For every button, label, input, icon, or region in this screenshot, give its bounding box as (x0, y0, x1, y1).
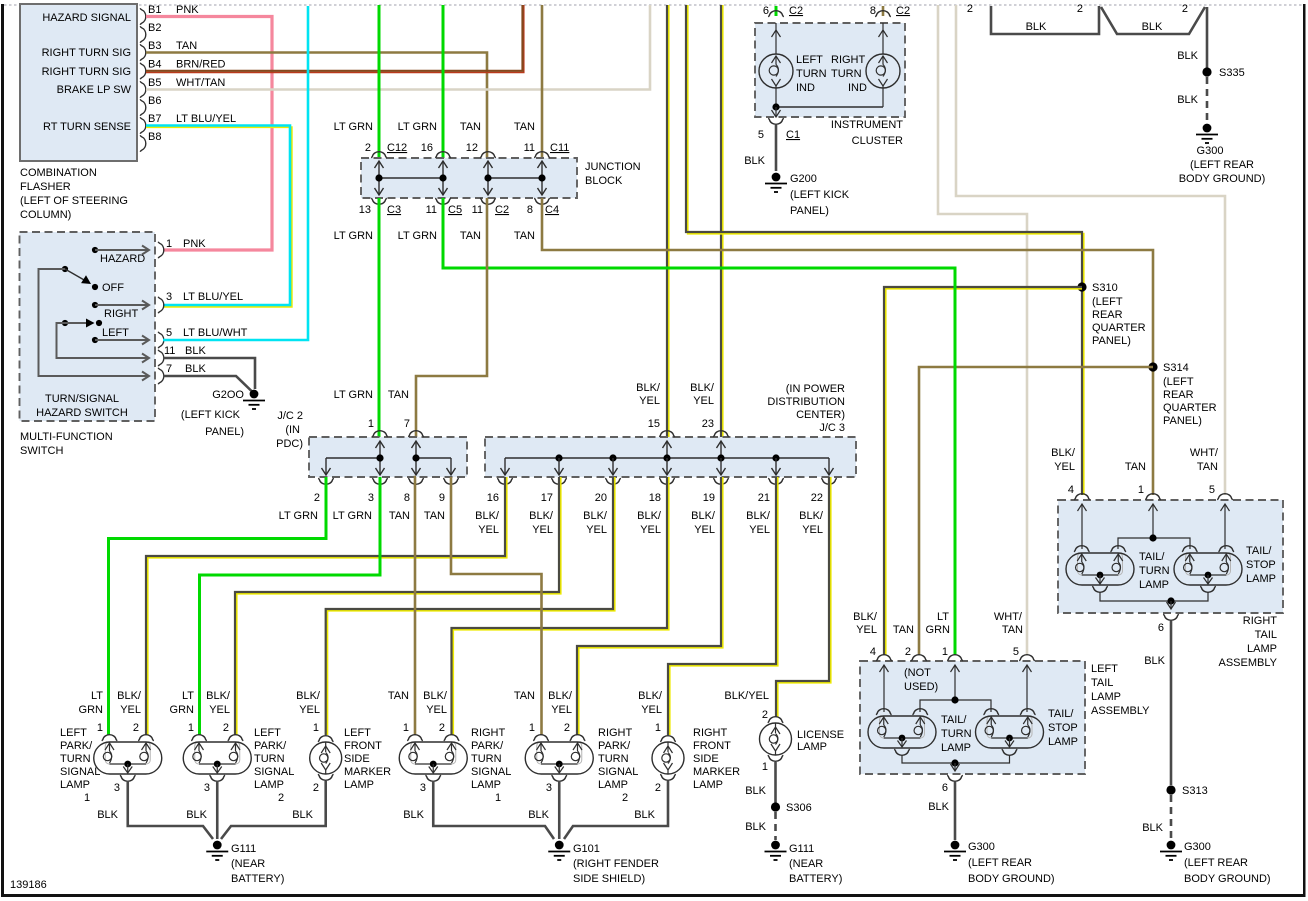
junction block pin C11/C4 arrow (538, 161, 547, 195)
svg-text:G2OO: G2OO (212, 389, 244, 401)
left front side marker lamp (310, 736, 342, 781)
svg-text:(LEFT OF STEERING: (LEFT OF STEERING (20, 195, 128, 207)
svg-text:LAMP: LAMP (1091, 691, 1121, 703)
svg-text:TURN: TURN (471, 753, 502, 765)
svg-text:9: 9 (439, 492, 445, 504)
J/C 3 pin caps (659, 431, 675, 437)
svg-text:3: 3 (368, 492, 374, 504)
switch arm lower (62, 320, 68, 326)
svg-text:2: 2 (967, 3, 973, 15)
J/C 3 pin 20 arrow (609, 458, 618, 475)
junction block bus right (488, 177, 542, 179)
svg-text:RIGHT TURN SIG: RIGHT TURN SIG (42, 47, 131, 59)
svg-text:18: 18 (649, 492, 661, 504)
svg-text:5: 5 (1013, 646, 1019, 658)
svg-text:TAN: TAN (893, 624, 914, 636)
svg-text:C3: C3 (387, 204, 401, 216)
svg-text:2: 2 (133, 722, 139, 734)
svg-text:C2: C2 (495, 204, 509, 216)
splice S306 (771, 802, 780, 811)
svg-text:REAR: REAR (1163, 389, 1194, 401)
svg-text:TURN: TURN (941, 728, 972, 740)
pin B5 bracket (140, 81, 146, 98)
wire TAN branch S314 to left tail pin 2 (919, 367, 1153, 655)
svg-text:1: 1 (495, 792, 501, 804)
svg-text:2: 2 (655, 782, 661, 794)
svg-text:OFF: OFF (102, 282, 124, 294)
svg-text:LEFT: LEFT (102, 327, 129, 339)
svg-text:C2: C2 (896, 5, 910, 17)
svg-text:YEL: YEL (209, 704, 230, 716)
svg-text:C11: C11 (550, 142, 569, 154)
svg-text:11: 11 (164, 345, 175, 357)
svg-text:YEL: YEL (120, 704, 141, 716)
svg-text:YEL: YEL (426, 704, 447, 716)
svg-text:G111: G111 (789, 843, 814, 855)
svg-text:2: 2 (1182, 3, 1188, 15)
svg-text:GRN: GRN (79, 704, 104, 716)
svg-text:BLK: BLK (1142, 822, 1163, 834)
instrument cluster caption (831, 119, 903, 147)
off contact (92, 284, 98, 290)
svg-text:TAN: TAN (514, 690, 535, 702)
junction block pin 12/C2 arrow (484, 161, 493, 195)
svg-text:(NEAR: (NEAR (231, 858, 265, 870)
svg-text:TAIL/: TAIL/ (1048, 708, 1074, 720)
svg-text:TURN: TURN (60, 753, 91, 765)
wire BLK right marker pin 2 (564, 781, 668, 839)
lamp wire labels left marker (296, 690, 321, 716)
J/C 2 box (309, 437, 467, 477)
left park/turn signal lamp 2 (183, 735, 251, 782)
svg-text:PANEL): PANEL) (790, 205, 829, 217)
svg-text:LT BLU/YEL: LT BLU/YEL (176, 113, 236, 125)
wire TAN stub pin 8 (882, 6, 885, 16)
svg-text:TURN: TURN (598, 753, 629, 765)
junction block pin caps top (371, 152, 387, 158)
svg-text:G300: G300 (1197, 145, 1224, 157)
svg-text:PARK/: PARK/ (471, 740, 504, 752)
junction block bottom wire labels (334, 230, 535, 242)
svg-text:RIGHT: RIGHT (1243, 615, 1278, 627)
J/C 3 pin 19 arrow (717, 458, 726, 475)
svg-text:13: 13 (359, 204, 371, 216)
svg-text:1: 1 (313, 722, 319, 734)
svg-text:7: 7 (166, 363, 172, 375)
wire BLK/YEL J/C3-20 to left marker pin 1 (327, 477, 614, 735)
svg-text:BLK: BLK (745, 785, 766, 797)
svg-text:YEL: YEL (640, 524, 661, 536)
svg-text:BLK: BLK (403, 809, 424, 821)
wire B5 WHT/TAN (146, 5, 650, 90)
svg-text:3: 3 (204, 782, 210, 794)
wire arm lower to pin 11 (57, 323, 150, 358)
svg-text:23: 23 (702, 418, 714, 430)
svg-text:BLK: BLK (1177, 94, 1198, 106)
svg-text:LAMP: LAMP (1139, 579, 1169, 591)
svg-text:LT GRN: LT GRN (279, 510, 318, 522)
svg-text:LT GRN: LT GRN (398, 121, 437, 133)
wire cluster BLK to ground (775, 125, 778, 171)
wire WHT/TAN run B to right tail pin 5 (956, 5, 1225, 495)
svg-text:YEL: YEL (1054, 461, 1075, 473)
left tail wire labels (853, 611, 1023, 636)
J/C 2 pin 2 arrow (322, 458, 331, 475)
svg-text:BATTERY): BATTERY) (231, 873, 284, 885)
svg-text:YEL: YEL (639, 395, 660, 407)
svg-text:1: 1 (403, 722, 409, 734)
ground G101 (548, 841, 570, 860)
svg-text:J/C 2: J/C 2 (277, 410, 303, 422)
svg-text:3: 3 (546, 782, 552, 794)
wire BLK/YEL J/C3-22 to license lamp pin 2 (778, 477, 831, 717)
svg-text:LAMP: LAMP (254, 779, 284, 791)
svg-text:HAZARD SIGNAL: HAZARD SIGNAL (42, 12, 131, 24)
svg-text:BLK/: BLK/ (529, 510, 554, 522)
svg-text:BLK: BLK (928, 801, 949, 813)
svg-text:BODY GROUND): BODY GROUND) (1184, 873, 1271, 885)
svg-text:PARK/: PARK/ (60, 740, 93, 752)
svg-text:LAMP: LAMP (1246, 573, 1276, 585)
svg-text:TAN: TAN (176, 40, 197, 52)
svg-text:PDC): PDC) (276, 438, 303, 450)
svg-text:STOP: STOP (1048, 722, 1078, 734)
svg-text:CENTER): CENTER) (796, 409, 845, 421)
wire BLK/YEL main run to right tail pin 4 (688, 5, 1084, 495)
svg-text:3: 3 (166, 291, 172, 303)
svg-text:PNK: PNK (176, 4, 199, 16)
svg-text:BLK/: BLK/ (746, 510, 771, 522)
right park/turn signal lamp 1 (399, 735, 467, 782)
J/C 2 pin 9 arrow (447, 458, 456, 475)
svg-text:C2: C2 (789, 5, 803, 17)
svg-text:TAN: TAN (460, 230, 481, 242)
J/C 2 pin 1 arrow (376, 441, 385, 458)
left tail pin 4 link (883, 665, 885, 712)
top crop dotted line (4, 4, 1303, 6)
svg-text:LT: LT (182, 690, 194, 702)
svg-text:PANEL): PANEL) (205, 426, 244, 438)
wire LT GRN into 16 (442, 5, 445, 158)
svg-text:YEL: YEL (532, 524, 553, 536)
wire pin 5 LT BLU/WHT (163, 6, 308, 340)
wire pin 7 BLK (163, 376, 252, 391)
svg-text:BLK: BLK (1177, 50, 1198, 62)
svg-text:BLK/: BLK/ (799, 510, 824, 522)
right front side marker lamp (652, 736, 684, 781)
svg-text:BLK/: BLK/ (475, 510, 500, 522)
wire TAN J/C2-8 to right park lamp 1 pin 1 (415, 477, 416, 735)
svg-text:YEL: YEL (551, 704, 572, 716)
svg-text:1: 1 (188, 722, 194, 734)
wire BLK left park 1 pin 3 (128, 781, 213, 839)
wire BLK right tail pin 6 (1170, 621, 1173, 785)
svg-text:TAN: TAN (389, 510, 410, 522)
wire BLK right park 2 pin 3 (558, 781, 561, 839)
svg-text:TAN: TAN (424, 510, 445, 522)
junction block top wire labels (334, 121, 535, 133)
svg-text:15: 15 (648, 418, 660, 430)
svg-text:B6: B6 (148, 95, 161, 107)
svg-text:SIGNAL: SIGNAL (598, 766, 638, 778)
svg-text:139186: 139186 (10, 879, 47, 891)
cluster pin 8 cap (875, 11, 891, 17)
svg-text:1: 1 (97, 722, 103, 734)
svg-text:RIGHT: RIGHT (104, 308, 139, 320)
svg-text:YEL: YEL (641, 704, 662, 716)
svg-text:C1: C1 (786, 129, 800, 141)
ground G111 left (206, 841, 228, 860)
svg-text:1: 1 (655, 722, 661, 734)
svg-text:TAN: TAN (1125, 461, 1146, 473)
svg-text:PARK/: PARK/ (254, 740, 287, 752)
wire BLK/YEL J/C3-18 to right park lamp 1 pin 2 (453, 477, 669, 735)
right tail ground bus (1100, 592, 1208, 601)
J/C 2 pin 8 arrow (412, 458, 421, 475)
svg-text:S310: S310 (1092, 282, 1118, 294)
svg-text:LEFT: LEFT (60, 727, 87, 739)
svg-text:RIGHT: RIGHT (598, 727, 633, 739)
svg-text:BLK/: BLK/ (548, 690, 573, 702)
svg-text:C5: C5 (448, 204, 462, 216)
svg-text:SWITCH: SWITCH (20, 445, 63, 457)
combination flasher internal labels (42, 12, 132, 133)
svg-text:TAIL: TAIL (1255, 629, 1277, 641)
svg-text:USED): USED) (904, 681, 938, 693)
svg-text:(IN POWER: (IN POWER (786, 383, 845, 395)
J/C 2 pin cups (318, 478, 334, 484)
pin B8 bracket (140, 135, 146, 152)
svg-text:LAMP: LAMP (941, 742, 971, 754)
svg-text:TURN: TURN (254, 753, 285, 765)
right tail pin 5 link (1224, 504, 1226, 549)
svg-text:BLK: BLK (634, 809, 655, 821)
svg-text:G300: G300 (1184, 841, 1211, 853)
svg-text:BLK: BLK (744, 155, 765, 167)
svg-text:5: 5 (166, 327, 172, 339)
J/C 3 pin 23 arrow (717, 441, 726, 458)
svg-text:6: 6 (942, 782, 948, 794)
wire LT GRN into C12 (378, 5, 381, 158)
svg-text:BLK/: BLK/ (690, 382, 715, 394)
svg-text:1: 1 (529, 722, 535, 734)
license lamp (760, 717, 792, 762)
svg-text:YEL: YEL (586, 524, 607, 536)
svg-text:4: 4 (870, 646, 876, 658)
right tail pin 6 cup (1163, 614, 1179, 620)
svg-text:GRN: GRN (170, 704, 195, 716)
left tail lamp assembly box (860, 661, 1085, 774)
svg-text:PANEL): PANEL) (1163, 415, 1202, 427)
wire LT GRN J/C2-2 to left park lamp 1 pin 1 (109, 477, 327, 735)
svg-text:QUARTER: QUARTER (1163, 402, 1217, 414)
J/C 2 bus right (416, 457, 451, 459)
svg-text:C4: C4 (545, 204, 559, 216)
svg-text:(IN: (IN (285, 424, 300, 436)
svg-text:(NEAR: (NEAR (789, 858, 823, 870)
svg-text:YEL: YEL (856, 624, 877, 636)
svg-text:CLUSTER: CLUSTER (852, 135, 903, 147)
svg-text:FLASHER: FLASHER (20, 181, 71, 193)
svg-text:BLK/: BLK/ (853, 611, 878, 623)
svg-text:2: 2 (314, 492, 320, 504)
svg-text:LT BLU/YEL: LT BLU/YEL (183, 291, 243, 303)
svg-text:COMBINATION: COMBINATION (20, 167, 97, 179)
svg-text:G200: G200 (790, 173, 817, 185)
svg-text:(LEFT REAR: (LEFT REAR (1184, 857, 1248, 869)
svg-text:WHT/: WHT/ (994, 611, 1023, 623)
J/C 3 pin 21 arrow (772, 458, 781, 475)
svg-text:LEFT: LEFT (1091, 663, 1118, 675)
svg-text:BLK: BLK (185, 345, 206, 357)
svg-text:JUNCTION: JUNCTION (585, 161, 641, 173)
svg-text:BLK/: BLK/ (636, 382, 661, 394)
svg-text:J/C 3: J/C 3 (819, 422, 845, 434)
wire TAN main run to right tail pin 1 (542, 198, 1153, 495)
svg-text:G101: G101 (573, 843, 600, 855)
svg-text:ASSEMBLY: ASSEMBLY (1219, 657, 1278, 669)
tail/stop lamp right (1174, 546, 1242, 593)
wire BLK dashed S335 to G300 (1206, 77, 1209, 122)
splice S314 (1148, 362, 1157, 371)
J/C 3 pin 17 arrow (555, 458, 564, 475)
svg-text:8: 8 (404, 492, 410, 504)
instrument cluster box (755, 23, 905, 117)
cluster ground bus (776, 106, 883, 108)
turn/signal hazard switch box (20, 232, 156, 421)
svg-text:BLK: BLK (186, 809, 207, 821)
right tail pin 1 link (1152, 504, 1154, 538)
svg-text:2: 2 (365, 142, 371, 154)
right tail pin 4 link (1081, 504, 1083, 549)
left tail pin 5 link (1026, 665, 1028, 712)
svg-text:19: 19 (703, 492, 715, 504)
svg-text:RIGHT: RIGHT (693, 727, 728, 739)
cluster pin 6 cap (768, 11, 784, 17)
right turn ind lamp (866, 23, 900, 107)
svg-text:BATTERY): BATTERY) (789, 873, 842, 885)
svg-text:LAMP: LAMP (1247, 643, 1277, 655)
J/C 2 pin 7 arrow (412, 441, 421, 458)
J/C 3 bottom wire labels (475, 510, 824, 536)
svg-text:SIDE: SIDE (693, 753, 719, 765)
svg-text:LT: LT (937, 611, 949, 623)
J/C 3 top wire labels (636, 382, 715, 407)
frame bottom border (1, 894, 1305, 897)
junction block box (361, 158, 577, 198)
wire B1 PNK (146, 17, 272, 251)
svg-text:20: 20 (595, 492, 607, 504)
left tail pin caps (876, 655, 892, 661)
J/C 3 pin 16 arrow (501, 458, 510, 475)
wire TAN into C11 (541, 5, 544, 158)
right tail wire labels (1051, 447, 1219, 473)
J/C 2 bus left (326, 457, 380, 459)
svg-text:LT GRN: LT GRN (334, 230, 373, 242)
svg-text:BLK/: BLK/ (206, 690, 231, 702)
svg-text:LT GRN: LT GRN (334, 121, 373, 133)
svg-text:BLK/: BLK/ (117, 690, 142, 702)
svg-text:B7: B7 (148, 113, 161, 125)
wire LT GRN stub pin 6 (775, 6, 778, 16)
svg-text:TAIL/: TAIL/ (1139, 551, 1165, 563)
ground G111 right (765, 841, 787, 860)
svg-text:BRAKE LP SW: BRAKE LP SW (57, 84, 132, 96)
svg-text:TAIL: TAIL (1091, 677, 1113, 689)
svg-text:STOP: STOP (1246, 559, 1276, 571)
wire WHT/TAN run A to left tail pin 5 (938, 5, 1027, 655)
svg-text:11: 11 (524, 142, 535, 154)
left tail pin 1 link (954, 665, 956, 700)
svg-text:LT GRN: LT GRN (334, 389, 373, 401)
svg-text:SIGNAL: SIGNAL (60, 766, 100, 778)
svg-text:YEL: YEL (694, 524, 715, 536)
svg-text:LT BLU/WHT: LT BLU/WHT (183, 327, 248, 339)
svg-text:BODY GROUND): BODY GROUND) (968, 873, 1055, 885)
svg-text:BLK/: BLK/ (296, 690, 321, 702)
svg-text:TAIL/: TAIL/ (941, 714, 967, 726)
wire LT GRN C3 to J/C2 pin 1 (378, 198, 381, 437)
svg-text:INSTRUMENT: INSTRUMENT (831, 119, 903, 131)
wire BLK/YEL feed J/C3 pin 23 (722, 5, 724, 437)
left tail ground bus (902, 755, 1010, 763)
lamp wire labels right park 1 (388, 690, 448, 716)
wire BLK dashed S313 to G300 (1170, 795, 1173, 840)
svg-text:(LEFT KICK: (LEFT KICK (181, 409, 241, 421)
switch pin brackets (158, 242, 164, 259)
J/C 3 pin 18 arrow (663, 458, 672, 475)
svg-text:1: 1 (762, 761, 768, 773)
right contact (92, 302, 98, 308)
svg-text:BLOCK: BLOCK (585, 175, 623, 187)
svg-text:RIGHT: RIGHT (831, 54, 866, 66)
combination flasher box (20, 4, 137, 161)
svg-text:FRONT: FRONT (344, 740, 382, 752)
J/C 3 bus (505, 457, 829, 459)
svg-text:2: 2 (223, 722, 229, 734)
svg-text:SIGNAL: SIGNAL (254, 766, 294, 778)
svg-text:2: 2 (313, 782, 319, 794)
svg-text:S306: S306 (786, 802, 812, 814)
svg-text:(LEFT: (LEFT (1163, 376, 1194, 388)
svg-text:LT GRN: LT GRN (333, 510, 372, 522)
svg-text:7: 7 (404, 418, 410, 430)
svg-text:LEFT: LEFT (796, 54, 823, 66)
svg-text:(LEFT KICK: (LEFT KICK (790, 189, 850, 201)
svg-text:8: 8 (527, 204, 533, 216)
svg-text:ASSEMBLY: ASSEMBLY (1091, 705, 1150, 717)
frame right border (1303, 4, 1306, 897)
svg-text:LEFT: LEFT (254, 727, 281, 739)
svg-text:SIGNAL: SIGNAL (471, 766, 511, 778)
svg-text:(LEFT: (LEFT (1092, 296, 1123, 308)
J/C 3 pin 15 arrow (663, 441, 672, 458)
svg-text:BLK/: BLK/ (1051, 447, 1076, 459)
splice S335 (1202, 67, 1211, 76)
J/C 2 bottom wire labels (279, 510, 445, 522)
svg-text:S313: S313 (1182, 785, 1208, 797)
svg-text:LAMP: LAMP (471, 779, 501, 791)
svg-text:DISTRIBUTION: DISTRIBUTION (767, 396, 845, 408)
ground G300 upper (1196, 124, 1218, 143)
right tail pin caps (1074, 494, 1090, 500)
svg-text:S314: S314 (1163, 362, 1189, 374)
svg-text:WHT/: WHT/ (1190, 447, 1219, 459)
svg-text:8: 8 (870, 5, 876, 17)
J/C 2 pin 3 arrow (376, 458, 385, 475)
svg-text:TAIL/: TAIL/ (1246, 545, 1272, 557)
svg-text:B5: B5 (148, 77, 161, 89)
